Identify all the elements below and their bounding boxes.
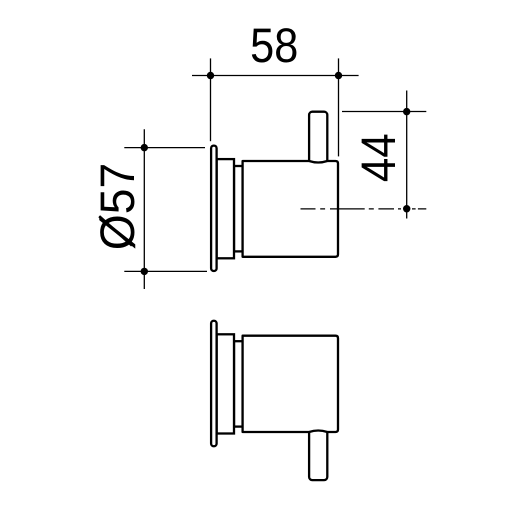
- dim 44: top extension line: [342, 111, 426, 113]
- dim 58: value label: [252, 28, 297, 62]
- bottom view: handle lever (down): [309, 427, 327, 480]
- dim D57: bottom extension line: [124, 270, 207, 272]
- dim 44: dimension line: [406, 91, 408, 219]
- dim D57: top extension line: [124, 147, 205, 149]
- bottom view: mixer body: [243, 336, 338, 432]
- top view: wall backplate: [217, 159, 234, 258]
- top view: trim ring (recessed collar): [234, 166, 243, 251]
- dim D57: value label: [99, 165, 135, 249]
- top view: handle lever (up): [309, 112, 327, 165]
- dim 44: value label: [362, 135, 395, 182]
- centerline (dash-dot axis): [301, 208, 427, 210]
- dim 44: top terminator dot: [403, 108, 410, 115]
- bottom view: wall backplate: [217, 334, 234, 433]
- dim D57: top terminator dot: [141, 144, 148, 151]
- bottom view: trim ring (recessed collar): [234, 341, 243, 426]
- dim D57: bottom terminator dot: [141, 268, 148, 275]
- dim 58: dimension line: [192, 75, 359, 77]
- dim 58: left extension line: [210, 58, 212, 141]
- dim 58: right extension line: [338, 58, 340, 156]
- dim 58: left terminator dot: [207, 72, 214, 79]
- top view: wall flange: [211, 146, 217, 271]
- bottom view: wall flange: [211, 321, 217, 447]
- dim 58: right terminator dot: [335, 72, 342, 79]
- dim 44: bottom terminator dot: [403, 205, 410, 212]
- dim D57: dimension line: [143, 129, 145, 289]
- dim D57: diameter-symbol slash stroke: [99, 216, 132, 245]
- top view: mixer body: [243, 161, 338, 257]
